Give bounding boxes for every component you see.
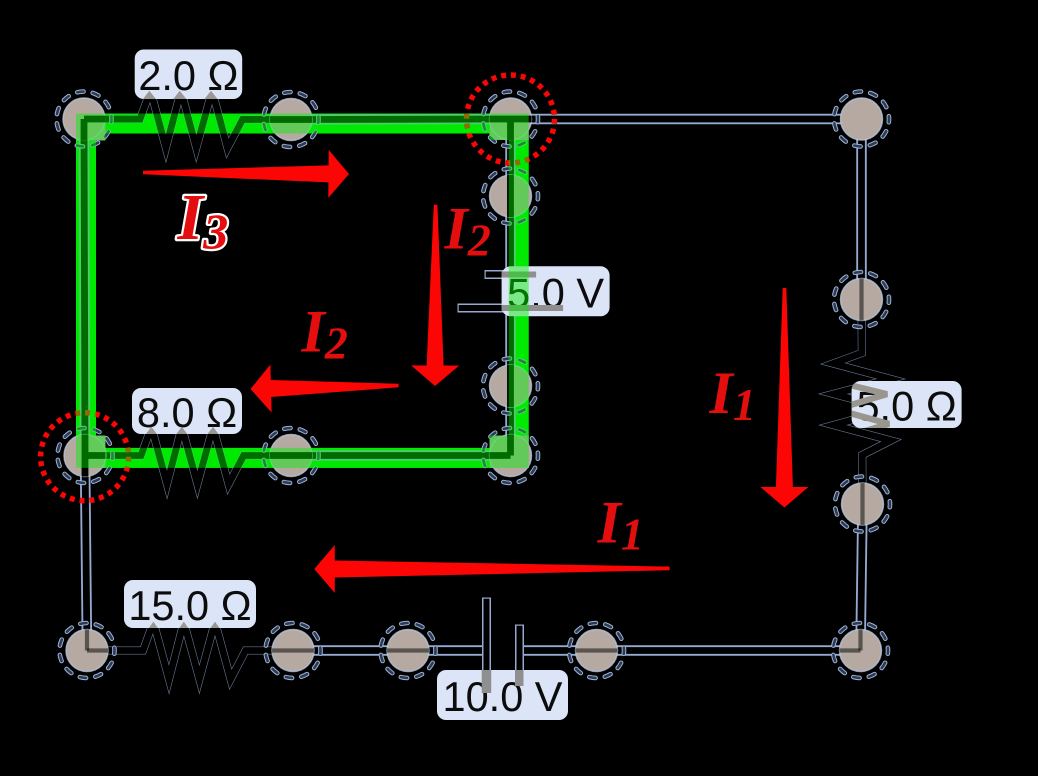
svg-text:2.0 Ω: 2.0 Ω (138, 52, 238, 99)
svg-text:15.0 Ω: 15.0 Ω (128, 582, 251, 629)
svg-text:10.0 V: 10.0 V (443, 673, 563, 720)
